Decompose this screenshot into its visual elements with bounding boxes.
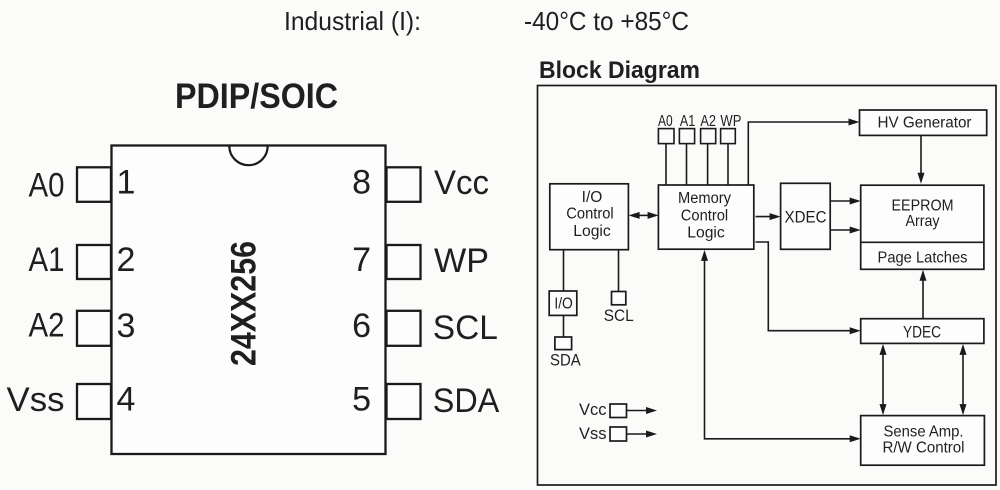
svg-text:A1: A1 xyxy=(680,113,695,130)
WP input pad box xyxy=(721,129,736,144)
svg-text:5: 5 xyxy=(352,381,371,419)
svg-text:6: 6 xyxy=(352,307,371,345)
arrowhead into XDEC xyxy=(770,213,781,220)
svg-text:I/O: I/O xyxy=(582,189,603,206)
svg-text:Vss: Vss xyxy=(7,381,65,419)
svg-text:XDEC: XDEC xyxy=(785,208,827,226)
pin 8 box xyxy=(387,167,421,202)
YDEC block xyxy=(861,319,984,344)
svg-text:4: 4 xyxy=(117,381,136,419)
pin 5 box xyxy=(387,384,421,419)
bidirectional arrow YDEC to Sense Amp (left) xyxy=(882,352,884,408)
wire I/O Control Logic down to I/O pad xyxy=(563,250,565,291)
svg-text:PDIP/SOIC: PDIP/SOIC xyxy=(175,77,338,116)
I/O pad box xyxy=(549,291,577,315)
bidirectional arrow YDEC to Sense Amp (right) xyxy=(962,352,964,408)
wire YDEC to Page Latches xyxy=(922,279,924,319)
A1 input pad box xyxy=(679,129,694,144)
arrowhead into EEPROM Array xyxy=(918,173,925,184)
wire Memory Control down / Sense Amp feed xyxy=(705,258,853,439)
svg-text:Vcc: Vcc xyxy=(434,164,489,202)
arrowhead into HV Generator xyxy=(849,119,860,126)
wire I/O pad to SDA pad xyxy=(563,315,565,337)
Vss pad box xyxy=(610,427,627,441)
svg-text:7: 7 xyxy=(352,241,371,279)
svg-text:Industrial (I):: Industrial (I): xyxy=(284,6,421,36)
svg-text:Block Diagram: Block Diagram xyxy=(539,57,700,84)
svg-text:WP: WP xyxy=(720,113,741,130)
svg-text:EEPROM: EEPROM xyxy=(892,197,954,214)
SCL pad box xyxy=(612,292,626,305)
wire A1 to Memory Control Logic xyxy=(686,144,688,186)
I/O Control Logic block xyxy=(550,184,629,250)
wire I/O Control Logic down to SCL pad xyxy=(618,250,620,292)
chip U1 body xyxy=(112,146,386,455)
svg-text:I/O: I/O xyxy=(554,296,573,313)
wire Memory Control to XDEC xyxy=(756,216,773,218)
svg-text:SDA: SDA xyxy=(550,351,581,370)
pin 3 box xyxy=(77,311,111,346)
svg-text:2: 2 xyxy=(117,241,136,279)
svg-text:Page Latches: Page Latches xyxy=(878,249,968,266)
XDEC block xyxy=(781,183,831,249)
svg-text:8: 8 xyxy=(352,164,371,202)
pin 4 box xyxy=(77,384,111,419)
svg-text:YDEC: YDEC xyxy=(903,323,941,341)
A0 input pad box xyxy=(658,129,674,144)
A2 input pad box xyxy=(701,129,716,144)
SDA pad box xyxy=(555,337,572,350)
Sense Amp / R/W Control block xyxy=(861,416,985,466)
svg-text:Control: Control xyxy=(681,208,728,225)
svg-text:1: 1 xyxy=(117,164,136,202)
svg-text:Control: Control xyxy=(566,205,613,222)
svg-text:Array: Array xyxy=(906,213,940,230)
svg-text:SCL: SCL xyxy=(604,306,634,325)
wire Memory Control to YDEC xyxy=(756,242,853,331)
HV Generator block xyxy=(860,110,987,135)
EEPROM Array / Page Latches block xyxy=(861,185,984,269)
svg-text:Logic: Logic xyxy=(573,223,611,240)
wire A0 to Memory Control Logic xyxy=(665,144,667,186)
wire HV Generator to EEPROM Array xyxy=(920,135,922,174)
pin 1 box xyxy=(77,167,111,202)
svg-text:HV Generator: HV Generator xyxy=(878,114,972,131)
Vcc arrow xyxy=(627,410,650,412)
svg-text:A1: A1 xyxy=(29,241,65,279)
pin 7 box xyxy=(387,245,421,279)
svg-text:3: 3 xyxy=(117,307,136,345)
svg-text:WP: WP xyxy=(434,242,489,280)
svg-text:-40°C to +85°C: -40°C to +85°C xyxy=(524,6,689,36)
svg-text:Vcc: Vcc xyxy=(579,401,607,419)
bidirectional arrow I/O Control to Memory Control xyxy=(638,214,650,216)
svg-text:SCL: SCL xyxy=(433,309,498,347)
svg-text:A0: A0 xyxy=(29,167,65,205)
svg-text:Memory: Memory xyxy=(678,190,731,207)
svg-text:A0: A0 xyxy=(658,113,673,130)
wire A2 to Memory Control Logic xyxy=(707,144,709,186)
block diagram outer border xyxy=(538,86,997,486)
chip U1 pin-1 notch xyxy=(229,146,267,165)
Vss arrow xyxy=(627,433,650,435)
Memory Control Logic block xyxy=(658,185,753,249)
wire XDEC to EEPROM (lower) xyxy=(830,229,852,231)
pin 2 box xyxy=(77,245,111,279)
Vcc pad box xyxy=(610,404,627,418)
pin 6 box xyxy=(387,311,421,346)
wire XDEC to EEPROM (upper) xyxy=(830,200,852,202)
wire Memory Control Logic to HV Generator xyxy=(748,122,850,185)
svg-text:Sense Amp.: Sense Amp. xyxy=(884,424,964,441)
svg-text:SDA: SDA xyxy=(433,382,500,420)
svg-text:A2: A2 xyxy=(29,307,65,345)
svg-text:R/W Control: R/W Control xyxy=(883,440,965,457)
svg-text:24XX256: 24XX256 xyxy=(225,241,264,366)
svg-text:A2: A2 xyxy=(700,113,716,130)
svg-text:Logic: Logic xyxy=(687,224,725,241)
wire WP to Memory Control Logic xyxy=(727,144,729,186)
svg-text:Vss: Vss xyxy=(579,425,607,443)
